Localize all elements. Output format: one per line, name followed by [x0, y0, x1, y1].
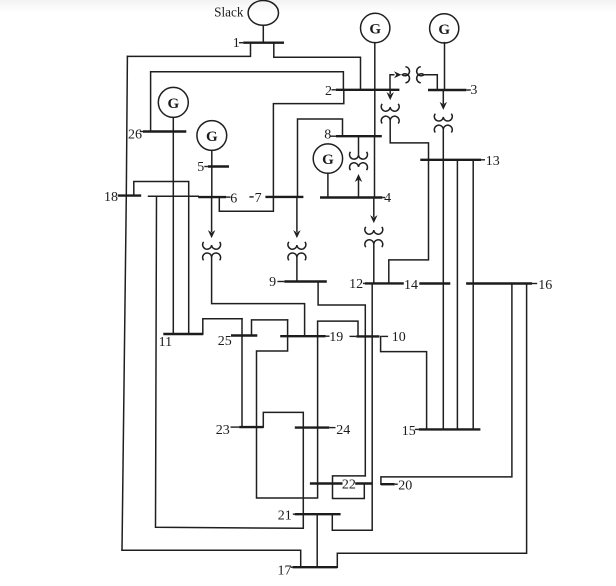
- wire 10-15 step: [381, 337, 427, 430]
- svg-text:G: G: [322, 152, 334, 168]
- node dash 21: [293, 513, 295, 515]
- arrow T4-8 up: [355, 174, 362, 182]
- arrow T2-13 down: [387, 92, 394, 100]
- transformer T4-8 windings: [350, 152, 368, 170]
- bus bar 22 left: [310, 482, 343, 484]
- generator G4 circle: [313, 144, 342, 173]
- bus bar 4: [320, 196, 382, 198]
- wire 25-23 vertical: [241, 319, 243, 427]
- svg-text:Slack: Slack: [214, 4, 244, 19]
- svg-text:14: 14: [404, 278, 418, 293]
- svg-text:17: 17: [278, 564, 292, 579]
- node dash 1: [239, 42, 243, 44]
- node dash 26: [140, 131, 143, 133]
- transformer T2-13 windings: [381, 104, 399, 124]
- label tick dashes: [140, 43, 537, 568]
- node dash 9: [277, 281, 284, 283]
- wire 11-25 step: [203, 319, 242, 334]
- svg-text:6: 6: [230, 191, 237, 206]
- bus bar 18: [118, 194, 141, 196]
- svg-text:4: 4: [384, 191, 391, 206]
- svg-text:26: 26: [128, 127, 142, 142]
- bus bars group: [118, 43, 532, 568]
- wire 16-17: [337, 284, 526, 568]
- bus bar 20: [381, 483, 395, 485]
- wires group: [122, 25, 527, 567]
- transformer T7-9 windings: [288, 242, 306, 260]
- bus bar 21: [295, 513, 341, 515]
- transformer T6-19 windings: [203, 242, 221, 260]
- bus bar 3: [428, 89, 466, 91]
- svg-text:21: 21: [278, 509, 292, 524]
- transformers: [203, 67, 453, 260]
- wire 21-17: [316, 514, 318, 567]
- transformer T3-13 windings: [434, 114, 452, 133]
- svg-text:19: 19: [329, 330, 343, 345]
- svg-text:2: 2: [325, 84, 332, 99]
- wire slack gen lead to bus1: [262, 25, 264, 42]
- svg-text:20: 20: [398, 479, 412, 494]
- node dash 13: [481, 159, 485, 161]
- generator circles: [158, 1, 459, 174]
- svg-text:25: 25: [218, 334, 232, 349]
- arrows: [208, 71, 447, 238]
- node dash 7: [249, 196, 253, 198]
- arrow T2-3 right: [394, 71, 401, 78]
- wire line 5-6: [211, 167, 213, 198]
- svg-text:5: 5: [197, 160, 204, 175]
- wire line 26-11: [172, 132, 174, 335]
- svg-text:G: G: [369, 22, 381, 38]
- svg-text:10: 10: [392, 330, 406, 345]
- node dash 20: [395, 483, 398, 485]
- svg-text:12: 12: [349, 277, 363, 292]
- transformer T2-3 left lead: [390, 75, 395, 90]
- node dash 3: [466, 89, 471, 91]
- wire G26 lead: [172, 118, 174, 132]
- wire 17 bottom horizontal: [122, 550, 301, 567]
- transformer T6-19 shaft: [211, 197, 213, 232]
- svg-text:1: 1: [233, 36, 240, 51]
- transformer T2-3 right lead: [424, 75, 437, 90]
- bus bar 9: [284, 280, 326, 282]
- wire 18 step over to 11: [134, 182, 189, 335]
- svg-text:G: G: [167, 96, 179, 112]
- wire 12-10-22-21 vertical: [332, 283, 372, 530]
- transformer T4-12 windings: [365, 227, 383, 247]
- arrow T6-19 down: [208, 230, 215, 238]
- svg-text:G: G: [438, 22, 450, 38]
- bus bar 14: [419, 282, 450, 284]
- bus bar 24: [295, 426, 330, 428]
- node dash 23: [231, 426, 240, 428]
- svg-text:7: 7: [255, 191, 262, 206]
- wire 6-19 transformer tail elbow: [212, 257, 305, 336]
- svg-text:24: 24: [336, 423, 350, 438]
- node dash 4: [382, 197, 385, 199]
- svg-text:8: 8: [324, 128, 331, 143]
- bus bar 2: [336, 89, 400, 91]
- generator G2 circle: [361, 13, 390, 42]
- arrow T4-12 down: [370, 215, 377, 223]
- transformer T2-13 shaft: [389, 90, 391, 94]
- generator slack circle: [248, 1, 278, 26]
- scan top shading: [0, 0, 616, 13]
- svg-text:15: 15: [402, 424, 416, 439]
- node dash 19 right: [350, 335, 357, 337]
- wire bus1 right stub (line 1-2): [274, 43, 361, 90]
- bus bar 11: [163, 333, 203, 335]
- bus bar 16: [466, 282, 532, 284]
- bus bar 19-10 right: [356, 335, 379, 337]
- wire line 2-8: [374, 90, 376, 136]
- transformer T2-3 windings: [402, 67, 424, 83]
- bus bar 23: [239, 426, 263, 428]
- wire 3-13-14-15 vertical below transformer: [442, 129, 444, 429]
- bus bar 12: [365, 282, 404, 284]
- bus bar 5: [208, 165, 229, 167]
- arrow T3-13 down: [440, 102, 447, 110]
- wire line 6-7 step: [219, 197, 273, 211]
- node dash 10: [381, 335, 388, 337]
- svg-text:3: 3: [470, 83, 477, 98]
- wire G5 lead: [211, 151, 213, 167]
- wire line 2-7: [273, 90, 343, 197]
- bus bar 17: [293, 566, 338, 568]
- svg-text:G: G: [206, 129, 218, 145]
- wire 2-26 loop: [151, 72, 344, 132]
- svg-text:16: 16: [538, 278, 552, 293]
- bus bar 25: [231, 334, 257, 336]
- generator G3 circle: [430, 14, 459, 43]
- wire 13-12 jog: [389, 160, 429, 284]
- bus bar 8: [336, 135, 382, 137]
- transformer T7-9 shaft: [296, 197, 298, 232]
- wire 4-8 transformer tail: [358, 180, 360, 198]
- wire 19-25 upper step: [252, 320, 288, 336]
- node dash 8: [331, 135, 337, 137]
- wire 2-13 elbow: [390, 120, 428, 160]
- wire 19-23 snake: [257, 320, 359, 498]
- bus bar 26: [143, 130, 186, 132]
- wire 4-12 transformer tail: [373, 244, 375, 284]
- svg-text:11: 11: [159, 335, 172, 350]
- arrow T7-9 down: [293, 230, 300, 238]
- node dash 24: [329, 427, 335, 429]
- wire 1-18-17 left long vertical: [122, 56, 127, 550]
- node dash 19 left: [326, 335, 330, 337]
- wire G2 lead: [374, 43, 376, 90]
- wire 20-16 riser: [381, 284, 512, 485]
- generator G5 circle: [197, 121, 227, 151]
- node dash 17: [291, 566, 293, 568]
- generator G26 circle: [158, 87, 188, 117]
- bus bar 1: [243, 42, 284, 44]
- wire 13-15 middle vertical: [456, 160, 458, 430]
- svg-text:23: 23: [216, 423, 230, 438]
- bus bar 19 left: [280, 335, 326, 337]
- wire 18-6 connection: [149, 195, 199, 197]
- transformer T4-8 shaft: [358, 136, 360, 155]
- wire G4 lead: [327, 173, 329, 197]
- wire 18-21 drop: [156, 196, 303, 528]
- wire 7-9 transformer tail: [296, 257, 298, 281]
- node dash 2: [332, 89, 336, 91]
- wire bus1 left stub: [127, 43, 250, 57]
- wire 9-10 step: [318, 282, 365, 476]
- node dash 5: [204, 166, 208, 168]
- node dash 16: [532, 283, 537, 285]
- svg-text:13: 13: [486, 154, 500, 169]
- bus bar 13: [420, 159, 481, 161]
- node dash 12: [363, 282, 365, 284]
- svg-text:18: 18: [104, 190, 118, 205]
- bus bar 6: [198, 196, 226, 198]
- node dash 6: [226, 196, 231, 198]
- bus bar 15: [419, 428, 481, 430]
- wire G3 lead: [444, 43, 446, 90]
- wire line 7-8: [298, 119, 343, 197]
- transformer T3-13 shaft: [442, 90, 444, 104]
- svg-text:22: 22: [342, 477, 356, 492]
- bus bar 7: [265, 196, 303, 198]
- bus bar 22 right: [355, 482, 372, 484]
- wire 10-22 detour: [333, 476, 366, 499]
- wire 13-16-15 vertical: [472, 160, 474, 430]
- transformer T4-12 shaft: [373, 198, 375, 218]
- node dash 15: [415, 428, 419, 430]
- wire 23 up step to 24: [263, 412, 303, 528]
- wire line 8-4 vertical: [374, 136, 376, 197]
- svg-text:9: 9: [269, 275, 276, 290]
